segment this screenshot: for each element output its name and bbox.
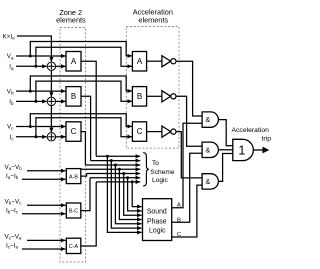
svg-text:C: C: [71, 127, 77, 136]
wire: fan 5 to sound phase logic: [124, 174, 142, 216]
wire: Ib-Ic input: [22, 213, 65, 215]
wire: Va-Vb input: [27, 170, 65, 172]
block: Acceleration element B: [132, 87, 146, 107]
label: Acceleration trip: [232, 127, 272, 143]
wire: accel B output to inverter: [147, 95, 162, 97]
wire: Vc-Va input: [27, 239, 65, 241]
wire: C-A output to scheme line 7: [81, 182, 96, 246]
svg-text:A-B: A-B: [69, 174, 78, 180]
wire: inverter C to AND gate 3: [176, 132, 202, 178]
wire: sum A output: [56, 65, 66, 67]
brace: To Scheme Logic: [143, 153, 149, 186]
wire: Vc input: [16, 126, 66, 128]
block: Acceleration element C: [132, 122, 146, 142]
svg-text:A: A: [71, 57, 77, 66]
wire: scheme line 3: [85, 164, 140, 166]
block: element A-B: [66, 169, 81, 184]
wire: accel C output to inverter: [147, 131, 162, 133]
node: Ic junction: [34, 135, 37, 138]
wire: AND 1 to OR gate: [219, 120, 233, 146]
AND gate 1: [202, 112, 218, 127]
arrowhead: trip output: [263, 147, 270, 154]
wire: accel A output to inverter: [147, 60, 162, 62]
svg-text:&: &: [205, 179, 210, 186]
OR gate 1: [233, 139, 254, 160]
wire: Vb-Vc input: [27, 204, 65, 206]
label: Acceleration elements header: [133, 8, 173, 25]
wire: K×Io vertical circle A to circle B: [50, 71, 52, 97]
wire: fan 2 to sound phase logic: [111, 161, 141, 229]
svg-text:Phase: Phase: [147, 218, 167, 225]
wire: inverter A to AND gate 1: [176, 61, 202, 116]
wire: Vb input: [16, 90, 66, 92]
svg-text:trip: trip: [262, 135, 272, 142]
wire: sound phase C to AND gate 3: [172, 185, 202, 237]
wire: fan 6 to sound phase logic: [128, 178, 142, 211]
block: Acceleration element A: [132, 52, 146, 72]
wire: fan 4 to sound phase logic: [119, 169, 141, 219]
wire: B-C output to scheme line 6: [81, 178, 90, 211]
svg-text:B-C: B-C: [69, 209, 78, 215]
wire: sound phase B to AND gate 2: [172, 153, 202, 222]
label: To Scheme Logic: [150, 160, 175, 184]
wire: fan 3 to sound phase logic: [115, 165, 141, 224]
wire: zone A output to scheme line 1: [81, 61, 96, 156]
node: Va junction: [29, 55, 32, 58]
svg-text:A: A: [137, 57, 143, 66]
summing junction B: [47, 97, 55, 105]
wire: scheme line 6: [90, 177, 140, 179]
node: line 1 junction: [106, 155, 109, 158]
wire: sum C output: [56, 136, 66, 138]
svg-text:Scheme: Scheme: [150, 169, 175, 176]
wire: acceleration trip output: [253, 149, 267, 151]
svg-text:To: To: [152, 160, 159, 167]
wire: Ic branch to acceleration C: [36, 118, 132, 137]
svg-text:&: &: [205, 147, 210, 154]
node: line 6 junction: [126, 176, 129, 179]
AND gate 3: [202, 174, 218, 189]
block: element C-A: [66, 238, 81, 253]
node: line 2 junction: [110, 159, 113, 162]
node: line 4 junction: [118, 168, 121, 171]
wire: zone C output to scheme line 3: [81, 132, 85, 165]
block: element B-C: [66, 203, 81, 218]
wire: fan 1 to sound phase logic: [107, 156, 141, 232]
wire: Ib input: [16, 100, 47, 102]
wire: inverter B to AND gate 2: [176, 96, 202, 146]
summing junction A: [47, 62, 55, 70]
svg-text:B: B: [71, 92, 76, 101]
wire: scheme line 7: [96, 181, 140, 183]
wire: Ic input: [16, 136, 47, 138]
wire: Vc branch to acceleration C: [30, 114, 132, 127]
svg-text:elements: elements: [56, 16, 86, 25]
wire: Ia branch to acceleration A: [36, 47, 132, 66]
svg-text:Sound: Sound: [147, 208, 167, 215]
node: line 5 junction: [122, 172, 125, 175]
node: Ib junction: [34, 100, 37, 103]
label: Zone 2 elements header: [56, 8, 86, 25]
block: Sound Phase Logic: [143, 199, 172, 241]
node: Ia junction: [34, 65, 37, 68]
wire: zone B output to scheme line 2: [81, 96, 91, 160]
wire: K×Io vertical circle B to circle C: [50, 106, 52, 133]
svg-text:B: B: [137, 92, 142, 101]
svg-text:C: C: [137, 127, 143, 136]
wire: Ia input: [16, 65, 47, 67]
wire: AND 3 to OR gate: [219, 154, 233, 182]
wire: A-B output to scheme line 5: [81, 174, 87, 177]
wire: sum B output: [56, 100, 66, 102]
wire: fan 7 to sound phase logic: [132, 182, 141, 207]
inverter (NOT gate) B: [162, 91, 176, 102]
wire: sound phase A to AND gate 1: [172, 123, 202, 208]
wire: Ib branch to acceleration B: [36, 81, 132, 101]
wire: K×Io to summing junctions: [17, 36, 51, 62]
wire: Ic-Ia input: [22, 248, 65, 250]
wire: Ia-Ib input: [22, 178, 65, 180]
wire: scheme line 5: [87, 173, 141, 175]
svg-text:&: &: [205, 117, 210, 124]
inverter (NOT gate) A: [162, 56, 176, 67]
svg-text:1: 1: [238, 144, 245, 158]
summing junction C: [47, 133, 55, 141]
wire: scheme line 4: [81, 168, 140, 170]
node: line 3 junction: [114, 164, 117, 167]
block: Zone 2 element C: [66, 122, 81, 142]
wire: scheme line 2: [91, 160, 141, 162]
node: line 7 junction: [131, 180, 134, 183]
dashed box: Acceleration elements: [126, 27, 179, 149]
AND gate 2: [202, 142, 218, 157]
block: Zone 2 element B: [66, 87, 81, 107]
node: Vc junction: [29, 125, 32, 128]
inverter (NOT gate) C: [162, 126, 176, 137]
node: Vb junction: [29, 90, 32, 93]
wire: scheme line 1: [96, 155, 140, 157]
svg-text:Acceleration: Acceleration: [232, 127, 270, 134]
wire: Vb branch to acceleration B: [30, 76, 132, 91]
block: Zone 2 element A: [66, 52, 81, 72]
wire: AND 2 to OR gate: [219, 149, 233, 151]
wire: Va branch to acceleration A: [30, 42, 132, 57]
svg-text:Logic: Logic: [152, 177, 168, 184]
svg-text:C-A: C-A: [69, 244, 79, 250]
dashed box: Zone 2 elements: [60, 28, 86, 263]
wire: Va input: [16, 55, 66, 57]
svg-text:Logic: Logic: [149, 228, 166, 235]
svg-text:elements: elements: [138, 16, 168, 25]
